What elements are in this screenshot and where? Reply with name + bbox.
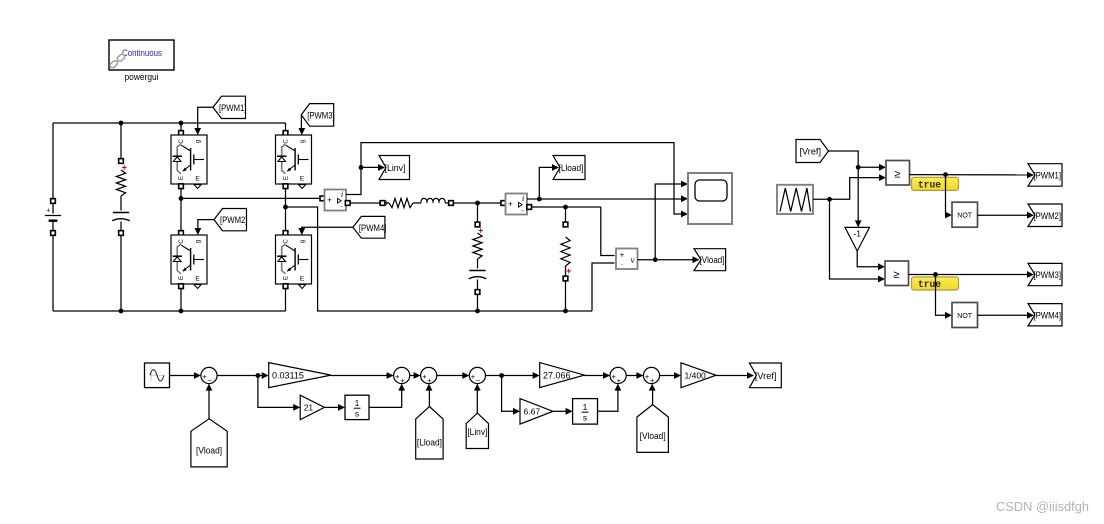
- svg-text:E: E: [195, 176, 200, 183]
- wire gain 21 to integrator 1: [324, 406, 338, 408]
- wire Q1 emitter to midpoint A: [180, 189, 182, 199]
- wire battery branch upper: [52, 123, 54, 201]
- wire branch to gain 6.67: [502, 376, 514, 412]
- svg-text:[Vload]: [Vload]: [640, 431, 666, 442]
- From tag Lload: [416, 407, 443, 460]
- svg-text:[PWM2]: [PWM2]: [1034, 211, 1062, 222]
- node Vref branch: [856, 165, 861, 170]
- svg-text:−: −: [208, 376, 213, 385]
- svg-text:[PWM3]: [PWM3]: [307, 110, 335, 121]
- wire sum 2 to sum 3: [410, 375, 414, 377]
- wire Lload to sum 3: [428, 389, 430, 407]
- wire carrier output: [813, 198, 830, 200]
- svg-text:true: true: [918, 180, 941, 192]
- From tag Vload a: [191, 419, 227, 467]
- wire sum 4 output: [486, 375, 534, 377]
- gain -1: [845, 227, 870, 251]
- wire sum 5 to sum 6: [626, 375, 637, 377]
- node return-filterC junction: [475, 309, 480, 314]
- Goto tag PWM1: [1028, 164, 1062, 187]
- node rail-IGBT2 bottom junction: [179, 309, 184, 314]
- wire top DC rail: [53, 122, 286, 124]
- svg-text:[Vref]: [Vref]: [755, 371, 777, 382]
- wire midpoint B to load return rail: [286, 207, 593, 311]
- From tag PWM1: [213, 96, 246, 118]
- svg-text:≥: ≥: [894, 168, 900, 180]
- svg-text:g: g: [196, 240, 202, 243]
- svg-text:E: E: [179, 176, 185, 180]
- node filter C junction: [475, 201, 480, 206]
- wire NOT 1 output to PWM2: [978, 214, 1029, 216]
- node load top junction: [563, 205, 568, 210]
- resistor R filter: [385, 202, 389, 204]
- From tag Vref: [796, 140, 829, 163]
- node comparator 2 output: [933, 272, 938, 277]
- svg-text:[Lload]: [Lload]: [559, 163, 584, 174]
- svg-text:+: +: [327, 196, 332, 205]
- sum junction 1: [201, 367, 217, 383]
- DC voltage source E1: [51, 199, 56, 204]
- svg-text:g: g: [196, 140, 202, 143]
- voltage measurement Vload: [616, 249, 638, 270]
- svg-text:6.67: 6.67: [524, 407, 541, 417]
- triangle wave generator: [777, 185, 813, 214]
- svg-text:0.03115: 0.03115: [272, 370, 304, 380]
- gain 1/400: [681, 363, 716, 388]
- node midpoint B: [283, 205, 288, 210]
- svg-text:[PWM3]: [PWM3]: [1034, 270, 1062, 281]
- gain 0.03115: [269, 363, 331, 388]
- svg-text:v: v: [631, 255, 635, 265]
- wire Vref to comparator 1: [829, 151, 859, 167]
- sum junction 5: [610, 367, 626, 383]
- powergui block: [109, 40, 174, 70]
- svg-text:NOT: NOT: [957, 313, 973, 320]
- wire comparator 2 output to PWM3: [909, 274, 1029, 276]
- wire Iload signal to scope: [527, 198, 682, 200]
- svg-text:g: g: [300, 240, 306, 243]
- wire branch to Linv goto: [361, 166, 379, 168]
- svg-text:1/400: 1/400: [685, 370, 707, 380]
- wire load top to voltmeter plus: [601, 207, 615, 256]
- svg-text:+: +: [46, 208, 50, 215]
- wire sum 6 to gain 1/400: [660, 375, 675, 377]
- From tag PWM4: [353, 216, 385, 238]
- svg-text:[Vload]: [Vload]: [700, 255, 725, 266]
- svg-text:E: E: [300, 176, 305, 183]
- wire Linv to sum 4: [476, 389, 478, 413]
- svg-text:C: C: [179, 239, 185, 244]
- inductor L filter: [421, 198, 445, 203]
- current measurement Iinv: [325, 190, 347, 211]
- wire Iload minus to load: [527, 205, 532, 210]
- wire Vload b to sum 6: [652, 389, 654, 405]
- wire return rail to voltmeter minus: [592, 263, 615, 311]
- wire PWM4 to Q4 gate: [302, 227, 353, 230]
- From tag PWM3: [301, 104, 334, 127]
- wire carrier to comparator 1: [830, 178, 880, 200]
- wire sine to sum 1: [170, 375, 195, 377]
- Goto tag Linv: [379, 156, 410, 180]
- wire integrator 2 to sum 5: [598, 389, 618, 411]
- svg-text:s: s: [583, 412, 587, 422]
- relational operator 1: [886, 161, 910, 186]
- wire comparator 1 output to PWM1: [910, 174, 1029, 176]
- svg-text:E: E: [179, 276, 185, 280]
- svg-text:+: +: [427, 376, 432, 385]
- svg-text:1: 1: [583, 402, 588, 412]
- wire branch to Lload goto: [539, 167, 552, 199]
- node voltmeter output junction: [653, 257, 658, 262]
- svg-text:1: 1: [355, 398, 360, 408]
- Goto tag Lload: [553, 156, 585, 180]
- From tag PWM2: [214, 209, 247, 231]
- svg-text:[PWM1]: [PWM1]: [1034, 170, 1062, 181]
- wire gain 0.03115 to sum 2: [331, 375, 387, 377]
- wire PWM3 to Q3 gate: [300, 115, 302, 130]
- sum junction 2: [394, 367, 410, 383]
- wire Iinv minus to filter inductor: [345, 201, 350, 206]
- wire bottom DC rail: [53, 310, 286, 312]
- svg-text:≥: ≥: [893, 269, 899, 281]
- svg-text:CSDN @iiisdfgh: CSDN @iiisdfgh: [996, 499, 1089, 514]
- node sum4 output branch: [499, 373, 504, 378]
- svg-text:C: C: [284, 239, 290, 244]
- svg-text:+: +: [400, 376, 405, 385]
- wire: [413, 202, 421, 204]
- node return-loadR junction: [563, 309, 568, 314]
- node carrier junction: [827, 197, 832, 202]
- wire Q3 emitter to midpoint B: [285, 189, 287, 208]
- gain 27.066: [540, 363, 585, 388]
- current measurement Iload: [501, 201, 506, 206]
- wire gain 1/400 to Vref goto: [716, 375, 747, 377]
- integrator 2: [573, 399, 598, 425]
- node Iinv signal branch: [359, 165, 364, 170]
- logic NOT 2: [952, 303, 978, 328]
- svg-text:E: E: [284, 276, 290, 280]
- node midpoint A: [179, 196, 184, 201]
- wire -1 output to comparator 2: [857, 251, 878, 267]
- gain 21: [300, 395, 324, 419]
- svg-text:+: +: [617, 376, 622, 385]
- svg-text:g: g: [300, 140, 306, 143]
- svg-text:21: 21: [304, 403, 314, 413]
- integrator 1: [345, 395, 369, 419]
- wire carrier to comparator 2: [830, 199, 879, 279]
- scope block: [688, 173, 732, 224]
- svg-text:[PWM1]: [PWM1]: [219, 103, 247, 114]
- Goto tag PWM2: [1028, 204, 1062, 227]
- svg-text:E: E: [195, 276, 200, 283]
- wire NOT 2 output to PWM4: [978, 314, 1029, 316]
- svg-text:C: C: [284, 139, 290, 144]
- Goto tag Vref: [749, 363, 781, 388]
- sum junction 4: [469, 367, 485, 383]
- svg-text:E: E: [300, 276, 305, 283]
- sine wave reference source: [145, 363, 170, 388]
- From tag Vload b: [637, 405, 669, 453]
- svg-text:E: E: [284, 176, 290, 180]
- series RC snubber branch: [120, 123, 122, 161]
- value label true 1: [912, 177, 959, 190]
- svg-text:[PWM4]: [PWM4]: [359, 223, 387, 234]
- wire sum 3 to sum 4: [437, 375, 463, 377]
- svg-text:-: -: [621, 260, 624, 269]
- svg-text:27.066: 27.066: [543, 370, 571, 380]
- node Iload signal branch: [537, 197, 542, 202]
- svg-text:[Linv]: [Linv]: [467, 427, 487, 438]
- wire: [445, 202, 449, 204]
- svg-text:[Linv]: [Linv]: [385, 163, 406, 174]
- node rail-IGBT1 junction: [179, 121, 184, 126]
- svg-text:[PWM2]: [PWM2]: [220, 215, 248, 226]
- svg-text:C: C: [179, 139, 185, 144]
- node sum1 output branch: [256, 373, 261, 378]
- svg-text:Continuous: Continuous: [122, 48, 162, 59]
- svg-text:true: true: [918, 279, 941, 291]
- sum junction 6: [643, 367, 659, 383]
- From tag Linv: [466, 413, 488, 448]
- svg-text:NOT: NOT: [957, 213, 973, 220]
- wire Vload signal to scope: [655, 184, 682, 260]
- logic NOT 1: [952, 202, 978, 227]
- svg-text:powergui: powergui: [125, 72, 159, 83]
- wire integrator 1 to sum 2: [369, 389, 402, 407]
- wire Q4 emitter to bottom rail: [285, 289, 287, 312]
- wire gain 27.066 to sum 5: [584, 375, 603, 377]
- svg-text:-1: -1: [853, 228, 861, 238]
- IGBT/Diode Q2: [180, 198, 182, 231]
- IGBT/Diode Q3: [285, 123, 287, 131]
- svg-text:[Vref]: [Vref]: [800, 147, 822, 158]
- IGBT/Diode Q1: [180, 123, 182, 131]
- svg-text:s: s: [355, 408, 359, 418]
- wire comparator 2 to NOT 2: [936, 275, 947, 316]
- wire comparator 1 to NOT 1: [946, 175, 947, 215]
- svg-text:[Vload]: [Vload]: [196, 445, 222, 456]
- wire Q2 emitter to bottom rail: [180, 289, 182, 312]
- svg-text:−: −: [476, 376, 481, 385]
- Goto tag PWM4: [1028, 304, 1062, 326]
- svg-text:+: +: [650, 376, 655, 385]
- wire Iinv signal to top scope rail: [346, 143, 682, 214]
- wire branch to gain 21: [258, 376, 294, 408]
- wire inductor to node C: [453, 202, 503, 204]
- wire gain 6.67 to integrator 2: [553, 410, 566, 412]
- wire PWM2 to Q2 gate: [198, 220, 214, 230]
- wire Vload a to sum 1: [208, 389, 210, 419]
- wire voltmeter output: [638, 259, 694, 261]
- IGBT/Diode Q4: [285, 207, 287, 231]
- svg-text:+: +: [620, 251, 625, 260]
- svg-text:[PWM4]: [PWM4]: [1034, 310, 1062, 321]
- wire Vref branch to inverting gain: [857, 167, 859, 222]
- wire PWM1 to Q1 gate: [198, 107, 213, 130]
- load resistor branch: [565, 207, 567, 222]
- relational operator 2: [885, 261, 909, 286]
- wire midpoint A to inverter current sensor: [181, 197, 321, 199]
- value label true 2: [912, 277, 959, 290]
- gain 6.67: [520, 399, 553, 425]
- sum junction 3: [421, 367, 437, 383]
- Goto tag PWM3: [1028, 263, 1062, 285]
- node rail-RC bottom junction: [119, 309, 124, 314]
- node comparator 1 output: [943, 172, 948, 177]
- svg-text:+: +: [508, 200, 513, 209]
- wire battery branch lower: [52, 235, 54, 311]
- wire sum 1 output: [217, 375, 262, 377]
- Goto tag Vload: [694, 249, 726, 271]
- filter capacitor branch RC: [477, 203, 479, 222]
- node rail-RC junction: [119, 121, 124, 126]
- svg-text:[Lload]: [Lload]: [417, 438, 442, 449]
